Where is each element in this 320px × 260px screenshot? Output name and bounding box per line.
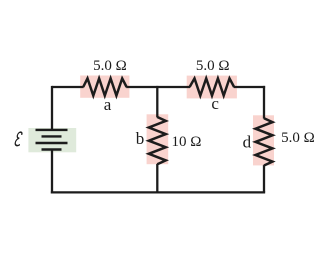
resistor b highlight box	[147, 114, 169, 164]
label EMF script epsilon	[15, 132, 23, 145]
svg-text:d: d	[243, 133, 252, 152]
svg-text:c: c	[211, 94, 219, 113]
resistor R_b zigzag	[149, 117, 166, 164]
battery cell plate long lower	[36, 142, 68, 144]
svg-text:10 Ω: 10 Ω	[172, 134, 202, 150]
svg-text:b: b	[136, 129, 145, 148]
wire: right vertical from resistor d down to bottom-right corner	[263, 165, 265, 192]
wire: left vertical from top corner down to battery top plate	[51, 86, 53, 130]
resistor c highlight box	[187, 76, 237, 99]
wire: top-left horizontal segment from left corner to resistor a	[52, 86, 84, 88]
svg-text:5.0 Ω: 5.0 Ω	[196, 58, 230, 74]
wire: right vertical from top-right corner down to resistor d	[263, 86, 265, 119]
battery cell plate short upper	[42, 135, 62, 137]
wire: middle branch vertical from resistor b down to bottom wire	[156, 164, 158, 193]
wire: top middle horizontal segment between resistor a and resistor c	[126, 86, 190, 88]
resistor d highlight box	[253, 115, 274, 165]
battery cell plate long top	[36, 129, 68, 131]
svg-text:5.0 Ω: 5.0 Ω	[281, 130, 315, 146]
wire: middle branch vertical from top junction down to resistor b	[156, 86, 158, 118]
battery EMF highlight box	[28, 128, 76, 152]
wire: bottom horizontal from left corner to right corner	[51, 191, 265, 193]
resistor R_c zigzag	[190, 78, 235, 95]
resistor R_d zigzag	[256, 118, 273, 165]
svg-text:a: a	[104, 95, 112, 114]
wire: top-right horizontal segment from resistor c to right corner	[234, 86, 265, 88]
resistor R_a zigzag	[83, 78, 126, 95]
wire: left vertical from battery bottom plate down to bottom-left corner	[51, 150, 53, 194]
battery cell plate short bottom	[42, 148, 62, 150]
svg-text:5.0 Ω: 5.0 Ω	[93, 58, 127, 74]
resistor a highlight box	[80, 76, 129, 98]
